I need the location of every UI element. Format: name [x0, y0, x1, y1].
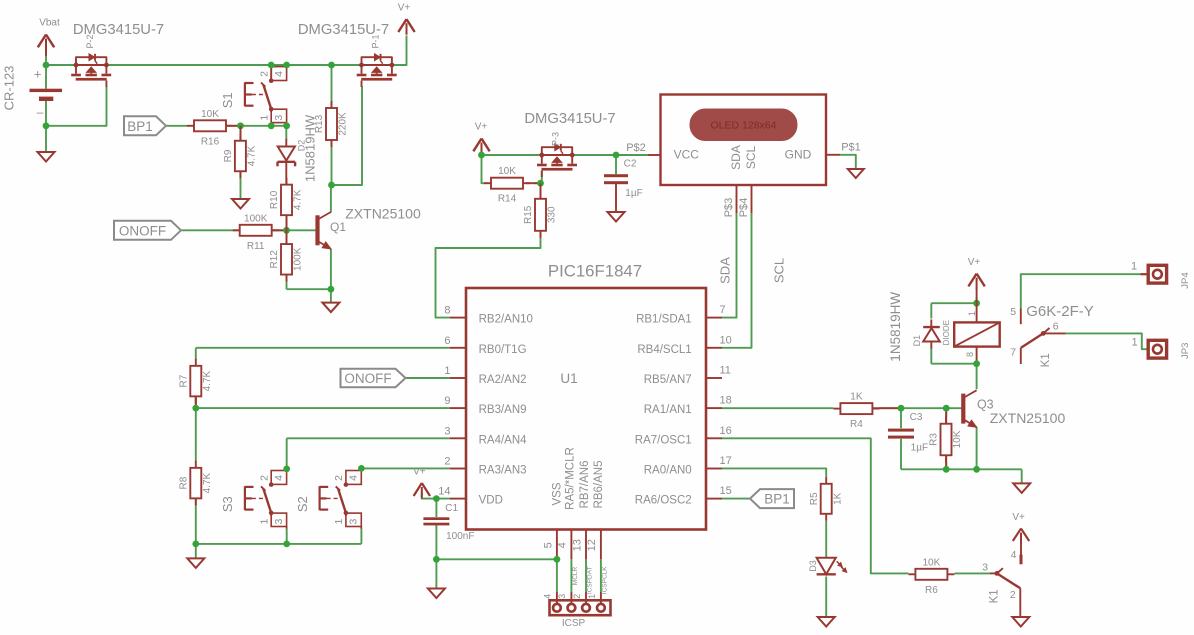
svg-text:1µF: 1µF [625, 188, 642, 199]
svg-text:ZXTN25100: ZXTN25100 [345, 206, 421, 222]
svg-text:JP3: JP3 [1180, 343, 1191, 359]
svg-text:P-3: P-3 [551, 132, 561, 146]
svg-text:1: 1 [258, 115, 270, 121]
svg-text:100nF: 100nF [446, 531, 474, 542]
svg-text:+: + [34, 67, 42, 82]
svg-text:SDA: SDA [718, 257, 733, 284]
svg-text:7: 7 [720, 304, 726, 316]
svg-text:VSS: VSS [552, 482, 564, 505]
svg-text:BP1: BP1 [127, 119, 153, 134]
svg-text:RB5/AN7: RB5/AN7 [644, 374, 692, 386]
svg-text:R6: R6 [925, 585, 938, 596]
svg-text:6: 6 [1053, 321, 1059, 333]
svg-text:10K: 10K [498, 166, 516, 177]
svg-text:P$1: P$1 [841, 142, 861, 154]
svg-text:4: 4 [1011, 549, 1017, 561]
svg-text:RA6/OSC2: RA6/OSC2 [635, 495, 692, 507]
svg-text:5: 5 [1010, 306, 1016, 318]
svg-text:V+: V+ [1012, 512, 1025, 523]
svg-text:RA7/OSC1: RA7/OSC1 [635, 434, 692, 446]
svg-text:S2: S2 [295, 496, 310, 512]
svg-text:OLED 128x64: OLED 128x64 [711, 119, 777, 131]
svg-text:JP4: JP4 [1180, 272, 1191, 288]
svg-text:9: 9 [444, 395, 450, 407]
svg-text:S3: S3 [220, 496, 235, 512]
svg-text:RB4/SCL1: RB4/SCL1 [637, 344, 691, 356]
svg-text:3: 3 [444, 425, 450, 437]
svg-text:10K: 10K [923, 557, 941, 568]
svg-text:8: 8 [444, 305, 450, 317]
svg-text:220K: 220K [338, 112, 349, 136]
svg-text:R14: R14 [498, 194, 517, 205]
svg-text:100K: 100K [244, 213, 268, 224]
svg-text:1: 1 [1131, 261, 1137, 273]
svg-text:ONOFF: ONOFF [119, 223, 166, 238]
svg-text:DMG3415U-7: DMG3415U-7 [524, 111, 615, 127]
svg-text:D3: D3 [808, 560, 818, 572]
svg-text:R4: R4 [850, 419, 863, 430]
svg-text:2: 2 [333, 475, 345, 481]
svg-text:R16: R16 [201, 136, 220, 147]
svg-text:Vbat: Vbat [39, 18, 60, 29]
svg-text:10K: 10K [201, 109, 219, 120]
svg-text:11: 11 [720, 365, 731, 377]
svg-text:ICSPCLK: ICSPCLK [602, 566, 609, 594]
svg-text:4: 4 [557, 542, 569, 548]
svg-text:RB3/AN9: RB3/AN9 [479, 404, 527, 416]
svg-text:3: 3 [557, 594, 567, 599]
svg-text:12: 12 [586, 539, 598, 551]
svg-text:RB1/SDA1: RB1/SDA1 [636, 314, 692, 326]
svg-text:R12: R12 [269, 250, 280, 269]
svg-text:RA4/AN4: RA4/AN4 [479, 434, 528, 446]
svg-text:SCL: SCL [744, 146, 758, 170]
svg-text:RB7/AN6: RB7/AN6 [579, 461, 591, 509]
svg-text:S1: S1 [220, 92, 235, 108]
svg-text:R9: R9 [223, 149, 234, 162]
svg-text:V+: V+ [968, 257, 981, 268]
svg-text:2: 2 [444, 456, 450, 468]
svg-text:V+: V+ [413, 467, 426, 478]
svg-text:ICSPDAT: ICSPDAT [587, 566, 594, 594]
svg-text:4: 4 [273, 71, 285, 77]
svg-text:3: 3 [982, 561, 988, 573]
svg-text:4.7K: 4.7K [293, 189, 304, 210]
svg-text:SCL: SCL [772, 258, 787, 283]
svg-text:4.7K: 4.7K [247, 145, 258, 166]
svg-text:4: 4 [273, 475, 285, 481]
svg-text:1: 1 [1132, 336, 1138, 348]
svg-text:CR-123: CR-123 [2, 66, 17, 111]
svg-text:1: 1 [967, 311, 977, 316]
svg-text:R7: R7 [179, 374, 190, 387]
svg-text:330: 330 [547, 206, 558, 223]
svg-text:15: 15 [720, 485, 732, 497]
svg-text:–: – [37, 105, 44, 119]
svg-text:RB6/AN5: RB6/AN5 [593, 461, 605, 509]
svg-text:1N5819HW: 1N5819HW [888, 292, 903, 362]
svg-text:RA3/AN3: RA3/AN3 [479, 465, 527, 477]
svg-text:V+: V+ [475, 122, 488, 133]
svg-text:1: 1 [444, 365, 450, 377]
svg-text:1: 1 [258, 519, 270, 525]
svg-text:3: 3 [273, 519, 285, 525]
svg-text:10K: 10K [952, 430, 963, 448]
svg-text:18: 18 [720, 395, 732, 407]
svg-text:K1: K1 [1040, 353, 1052, 367]
svg-text:MCLR: MCLR [572, 566, 579, 585]
svg-text:1K: 1K [850, 392, 863, 403]
svg-text:Q1: Q1 [330, 220, 346, 234]
svg-text:DIODE: DIODE [942, 320, 951, 345]
svg-text:RA2/AN2: RA2/AN2 [479, 374, 527, 386]
svg-text:ZXTN25100: ZXTN25100 [990, 410, 1066, 426]
svg-text:R8: R8 [179, 476, 190, 489]
svg-text:VDD: VDD [479, 495, 503, 507]
svg-text:P$4: P$4 [738, 198, 750, 218]
svg-text:4: 4 [543, 594, 553, 599]
svg-text:4.7K: 4.7K [202, 472, 213, 493]
svg-text:2: 2 [258, 475, 270, 481]
svg-text:ICSP: ICSP [562, 618, 586, 629]
svg-text:R15: R15 [523, 205, 534, 224]
svg-text:R5: R5 [809, 492, 820, 505]
svg-text:R10: R10 [269, 190, 280, 209]
svg-text:1: 1 [333, 519, 345, 525]
svg-text:BP1: BP1 [764, 492, 790, 507]
svg-text:100K: 100K [293, 247, 304, 271]
svg-text:14: 14 [438, 486, 450, 498]
svg-text:V+: V+ [398, 3, 411, 14]
svg-text:10: 10 [720, 334, 732, 346]
svg-text:1K: 1K [832, 492, 843, 505]
svg-text:RB2/AN10: RB2/AN10 [479, 314, 533, 326]
svg-text:P$2: P$2 [626, 142, 646, 154]
svg-text:ONOFF: ONOFF [344, 371, 391, 386]
svg-text:2: 2 [258, 71, 270, 77]
svg-text:P$3: P$3 [723, 198, 735, 218]
svg-text:2: 2 [1010, 589, 1016, 601]
svg-text:1µF: 1µF [911, 443, 928, 454]
svg-text:C1: C1 [445, 503, 458, 514]
svg-text:R11: R11 [247, 241, 265, 252]
svg-text:U1: U1 [560, 371, 577, 386]
svg-text:RA0/AN0: RA0/AN0 [644, 465, 692, 477]
svg-text:3: 3 [273, 115, 285, 121]
svg-text:2: 2 [572, 594, 582, 599]
svg-text:6: 6 [444, 335, 450, 347]
svg-text:13: 13 [571, 539, 583, 551]
svg-text:8: 8 [965, 352, 975, 357]
svg-text:PIC16F1847: PIC16F1847 [548, 262, 642, 281]
svg-text:7: 7 [1010, 347, 1016, 359]
svg-text:D1: D1 [912, 335, 922, 347]
svg-text:16: 16 [720, 425, 732, 437]
svg-text:4.7K: 4.7K [202, 370, 213, 391]
svg-text:5: 5 [542, 542, 554, 548]
svg-text:C3: C3 [910, 412, 923, 423]
svg-text:VCC: VCC [674, 148, 700, 162]
svg-text:3: 3 [348, 519, 360, 525]
svg-text:GND: GND [785, 148, 812, 162]
svg-text:4: 4 [348, 475, 360, 481]
svg-text:R13: R13 [314, 114, 325, 133]
svg-text:G6K-2F-Y: G6K-2F-Y [1026, 303, 1094, 320]
svg-text:SDA: SDA [729, 145, 743, 170]
svg-text:17: 17 [720, 455, 732, 467]
svg-text:DMG3415U-7: DMG3415U-7 [298, 22, 389, 38]
svg-text:K1: K1 [989, 589, 1001, 603]
svg-text:RA5/*MCLR: RA5/*MCLR [565, 447, 577, 510]
svg-text:RA1/AN1: RA1/AN1 [644, 404, 692, 416]
svg-text:R3: R3 [929, 433, 940, 446]
svg-text:DMG3415U-7: DMG3415U-7 [73, 22, 164, 38]
svg-text:C2: C2 [624, 159, 637, 170]
svg-text:RB0/T1G: RB0/T1G [479, 344, 527, 356]
